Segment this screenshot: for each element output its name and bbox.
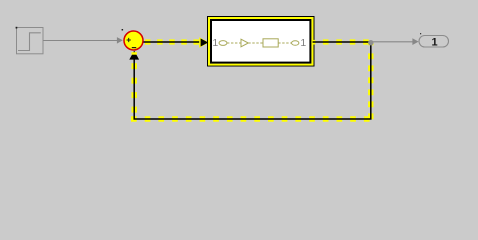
svg-text:1: 1 xyxy=(432,37,438,49)
gain triangle xyxy=(241,39,248,47)
minus sign xyxy=(132,47,136,49)
feedback black core path xyxy=(134,42,371,119)
step source block xyxy=(17,28,44,54)
plus sign xyxy=(127,38,131,42)
outport oval xyxy=(292,41,299,46)
outport block xyxy=(419,36,449,49)
connector xyxy=(278,42,291,44)
subsystem block xyxy=(208,17,315,67)
feedback arrowhead into sum bottom xyxy=(129,51,139,60)
svg-text:1: 1 xyxy=(300,37,306,49)
connector xyxy=(227,42,241,44)
annotation dot sum xyxy=(122,29,124,31)
sum block S1 xyxy=(124,31,143,50)
highlighted arrowhead into subsystem xyxy=(199,37,209,48)
feedback: vertical right segment yellow xyxy=(368,53,373,119)
junction dot xyxy=(368,40,373,45)
inport oval xyxy=(219,41,227,46)
feedback: vertical left segment yellow xyxy=(131,63,136,119)
connector xyxy=(248,42,263,44)
subsystem contents preview xyxy=(212,37,306,49)
annotation dot step xyxy=(16,27,18,29)
transfer fcn rect xyxy=(263,39,278,47)
feedback: bottom segment yellow xyxy=(131,116,371,121)
highlighted wire subsystem to junction : port stub dash xyxy=(313,40,316,45)
gray wire junction to outport xyxy=(371,41,413,43)
arrowhead into outport xyxy=(412,38,418,45)
highlighted wire subsystem to junction xyxy=(323,39,371,44)
black core line xyxy=(144,41,204,43)
wire step to sum xyxy=(43,40,118,42)
svg-text:1: 1 xyxy=(212,37,218,49)
feedback: partial yellow dash at junction xyxy=(368,42,373,45)
highlighted wire sum to subsystem : yellow dashes xyxy=(145,39,203,44)
annotation dot outport xyxy=(420,33,421,34)
canvas background xyxy=(0,0,478,140)
arrowhead into sum xyxy=(117,37,123,44)
yellow dash stripe on arrowhead xyxy=(132,52,137,55)
